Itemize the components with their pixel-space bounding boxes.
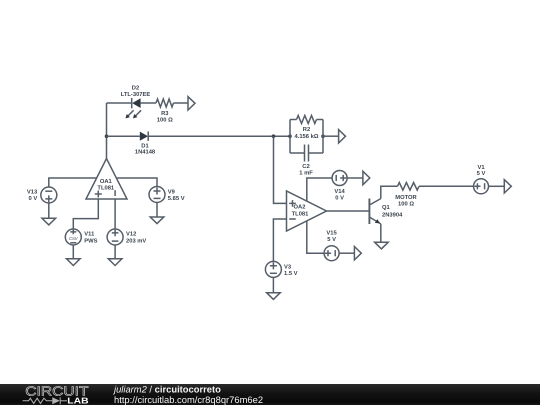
node flag (V1) — [504, 180, 511, 193]
wire — [323, 135, 339, 137]
svg-text:juliarm2 / circuitocorreto: juliarm2 / circuitocorreto — [112, 384, 221, 395]
svg-text:1N4148: 1N4148 — [135, 149, 156, 156]
voltage source V15 — [324, 246, 339, 261]
wire — [107, 135, 140, 137]
svg-text:0 V: 0 V — [335, 194, 344, 201]
wire — [48, 203, 50, 218]
footer bar — [0, 384, 540, 405]
voltage source V9 — [149, 187, 165, 203]
voltage source V13 — [41, 187, 57, 203]
svg-text:V13: V13 — [27, 188, 38, 195]
op-amp OA2 — [287, 191, 327, 231]
voltage source V14 — [332, 171, 347, 186]
node junction — [105, 134, 109, 138]
voltage source V12 — [107, 229, 123, 245]
resistor R2 — [297, 116, 317, 124]
svg-text:MOTOR: MOTOR — [395, 194, 417, 201]
wire (OA2 V- pin to V15) — [307, 221, 324, 253]
ground — [67, 259, 81, 266]
wire — [114, 245, 116, 259]
svg-text:V12: V12 — [126, 231, 136, 238]
svg-text:D2: D2 — [132, 85, 139, 92]
diode D1 — [140, 132, 148, 141]
svg-text:http://circuitlab.com/cr8q8qr7: http://circuitlab.com/cr8q8qr76m6e2 — [114, 394, 263, 405]
wire (OA2 -in to V3) — [273, 219, 286, 261]
node flag (V15) — [354, 247, 361, 260]
wire (collector up) — [381, 186, 398, 198]
svg-text:100 Ω: 100 Ω — [157, 117, 173, 124]
transistor Q1 — [369, 199, 380, 225]
wire — [317, 119, 324, 121]
svg-text:PWS: PWS — [84, 237, 97, 244]
svg-text:V15: V15 — [326, 231, 337, 237]
resistor MOTOR — [398, 183, 420, 191]
voltage source V1 — [474, 179, 489, 194]
svg-text:LTL-307EE: LTL-307EE — [121, 91, 151, 98]
svg-text:CSV: CSV — [69, 236, 79, 241]
wire — [347, 177, 363, 179]
wire (OA1 V- pin to V13) — [49, 178, 97, 187]
svg-text:TL081: TL081 — [97, 185, 115, 192]
svg-text:V9: V9 — [168, 188, 176, 195]
svg-text:1 mF: 1 mF — [299, 170, 313, 176]
svg-text:203 mV: 203 mV — [126, 237, 146, 244]
svg-text:5 V: 5 V — [327, 237, 336, 243]
wire (OA1 +in to V11) — [73, 199, 98, 229]
wire — [309, 152, 324, 154]
wire (OA1 output vertical) — [106, 103, 108, 159]
wire (OA2 V+ pin to V14) — [307, 178, 332, 201]
wire (OA1 V+ pin to V9) — [116, 178, 157, 187]
svg-text:2N3904: 2N3904 — [382, 212, 403, 219]
ground — [375, 242, 389, 249]
wire (emitter down) — [380, 224, 382, 242]
wire (R2/C2 box left) — [289, 120, 291, 154]
svg-text:5 V: 5 V — [477, 171, 486, 177]
wire — [339, 252, 354, 254]
svg-text:R3: R3 — [161, 110, 169, 117]
op-amp OA1 — [86, 159, 127, 200]
svg-text:TL081: TL081 — [292, 210, 310, 217]
wire — [272, 277, 274, 292]
svg-text:LAB: LAB — [67, 395, 88, 405]
ground — [150, 217, 164, 224]
svg-text:V11: V11 — [84, 232, 95, 238]
svg-text:V14: V14 — [334, 189, 345, 195]
wire — [419, 185, 474, 187]
wire — [290, 119, 297, 121]
svg-text:4.156 kΩ: 4.156 kΩ — [295, 133, 319, 140]
svg-text:R2: R2 — [303, 126, 310, 133]
LED D2 — [125, 98, 141, 118]
wire — [141, 102, 156, 104]
ground — [108, 259, 122, 266]
wire — [148, 135, 290, 137]
svg-text:V1: V1 — [477, 165, 485, 171]
voltage source V3 — [265, 261, 281, 277]
node flag (V14) — [363, 171, 370, 184]
wire — [107, 102, 132, 104]
CircuitLab logo waveform — [23, 397, 67, 404]
svg-text:Q1: Q1 — [382, 204, 391, 211]
ground — [42, 218, 56, 225]
svg-text:D1: D1 — [141, 143, 149, 149]
capacitor C2 — [305, 145, 309, 162]
svg-text:C2: C2 — [302, 163, 309, 170]
svg-text:OA2: OA2 — [294, 204, 306, 211]
wire (R2/C2 box right) — [322, 120, 324, 154]
wire — [290, 152, 305, 154]
voltage source V11 (PWS/CSV) — [65, 229, 81, 245]
resistor R3 — [156, 99, 174, 107]
wire — [72, 245, 74, 259]
wire (OA1 -in to V12) — [114, 199, 116, 229]
wire — [156, 203, 158, 218]
svg-text:1.5 V: 1.5 V — [284, 271, 298, 277]
svg-text:0 V: 0 V — [28, 195, 37, 202]
svg-text:V3: V3 — [284, 263, 292, 270]
svg-text:100 Ω: 100 Ω — [398, 201, 414, 208]
node junction — [272, 134, 276, 138]
node flag (main net) — [339, 130, 346, 143]
node junction — [288, 134, 292, 138]
wire (feedback from node to OA2 +in) — [274, 136, 287, 203]
svg-text:5.65 V: 5.65 V — [168, 195, 185, 202]
ground — [267, 293, 281, 300]
node flag (R3 output) — [188, 97, 195, 110]
wire — [489, 185, 505, 187]
svg-text:OA1: OA1 — [100, 178, 113, 185]
node junction — [321, 134, 325, 138]
wire (OA2 output to Q1 base) — [327, 210, 370, 212]
wire — [174, 102, 189, 104]
